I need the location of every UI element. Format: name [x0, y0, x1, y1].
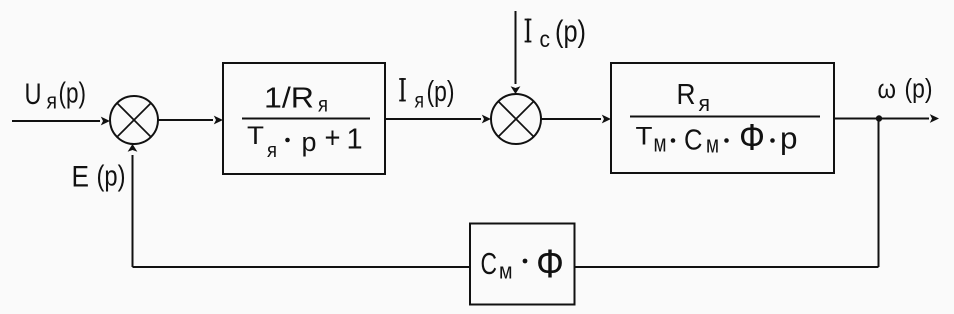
svg-text:Ф: Ф	[739, 117, 765, 158]
svg-text:я: я	[47, 89, 58, 114]
svg-text:я: я	[415, 90, 425, 113]
wire feedback vertical right	[878, 119, 880, 268]
svg-text:c: c	[540, 26, 551, 52]
svg-text:(p): (p)	[555, 14, 586, 49]
svg-text:я: я	[699, 91, 711, 116]
wire summer S2 to block W2	[541, 115, 611, 124]
node takeoff point	[876, 115, 882, 121]
wire input to summer S1	[12, 117, 110, 126]
wire block W2 to output	[834, 114, 939, 123]
svg-text:+: +	[325, 122, 341, 155]
svg-text:T: T	[247, 122, 264, 150]
label I armature: serif I stem	[399, 78, 406, 102]
svg-text:м: м	[654, 131, 667, 158]
wire block W1 to summer S2	[385, 115, 491, 124]
svg-text:E: E	[72, 161, 90, 194]
svg-text:ω: ω	[878, 74, 897, 104]
summing junction S1	[110, 96, 158, 144]
fraction bar W2	[630, 116, 820, 118]
svg-text:U: U	[25, 78, 42, 111]
svg-text:м: м	[499, 259, 513, 284]
wire disturbance Ic into summer S2	[511, 11, 521, 94]
wire feedback bottom left	[133, 266, 471, 268]
text W1 denominator multiply dot	[285, 138, 290, 143]
svg-text:С: С	[684, 125, 703, 157]
svg-text:С: С	[481, 246, 498, 281]
wire summer S1 to block W1	[158, 116, 223, 125]
block W3 box	[470, 224, 575, 305]
label Ic disturbance: serif I stem	[525, 19, 532, 43]
svg-text:(p): (p)	[427, 76, 455, 108]
text W2 denominator dot 3	[770, 138, 775, 143]
wire feedback vertical left into summer S1	[128, 144, 138, 267]
block W2 box	[611, 63, 834, 173]
svg-text:p: p	[780, 121, 798, 156]
svg-text:м: м	[706, 132, 719, 159]
text W2 denominator dot 2	[724, 138, 729, 143]
fraction bar W1	[242, 118, 370, 120]
svg-text:R: R	[677, 79, 696, 111]
svg-text:(p): (p)	[59, 78, 87, 110]
svg-text:(p): (p)	[97, 161, 126, 193]
text W3 gain multiply dot	[523, 259, 528, 264]
svg-text:я: я	[267, 140, 277, 162]
text W2 denominator dot 1	[671, 138, 676, 143]
block W1 box	[223, 63, 385, 174]
svg-text:(p): (p)	[905, 74, 933, 104]
svg-text:я: я	[318, 94, 328, 117]
summing junction S2	[491, 94, 541, 144]
wire feedback bottom right	[575, 266, 879, 268]
svg-text:p: p	[302, 127, 317, 157]
svg-text:1/R: 1/R	[264, 83, 314, 115]
svg-text:Т: Т	[636, 123, 653, 151]
svg-text:1: 1	[347, 124, 363, 156]
svg-text:Ф: Ф	[536, 242, 564, 286]
